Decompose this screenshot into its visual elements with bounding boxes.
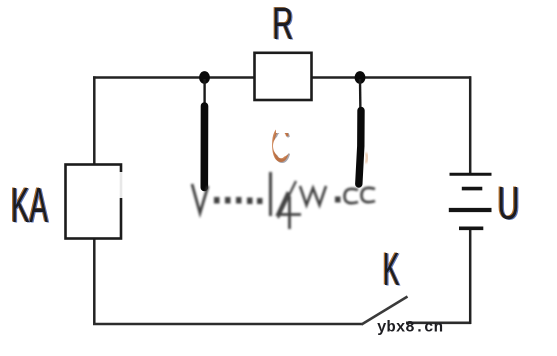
- left electrode bar: [201, 106, 209, 188]
- remnant dots row: [214, 197, 220, 204]
- remnant letter c: [345, 189, 359, 203]
- white smudge on KA box right border: [117, 172, 124, 198]
- erased capacitor label C (faint orange): [271, 119, 291, 174]
- junction node: right dot: [355, 71, 366, 84]
- remnant fraction slash: [278, 181, 296, 218]
- svg-text:R: R: [272, 0, 293, 49]
- wire: left electrode stub: [203, 79, 205, 107]
- battery U: bottom short plate (-): [459, 227, 483, 231]
- wire: left vertical, top corner down to KA coil: [93, 76, 96, 166]
- relay coil KA (box): [66, 165, 122, 239]
- wire: bottom horizontal, switch to bottom-right corner: [406, 321, 471, 324]
- white smudge over C top: [276, 124, 290, 133]
- switch K blade (open): [362, 297, 408, 325]
- right electrode bar: [359, 111, 361, 185]
- battery U: first short plate (-): [462, 187, 483, 191]
- remnant letter c: [362, 188, 376, 202]
- erased watermark: blurred "V .....1/4 W.cc" remnants: [192, 172, 375, 229]
- svg-text:KA: KA: [11, 178, 48, 233]
- remnant glyph V: [192, 184, 208, 213]
- label KA: [10, 178, 49, 234]
- battery U: top long plate (+): [450, 173, 492, 176]
- white smudge over C: [273, 135, 291, 157]
- resistor R (box): [255, 53, 312, 100]
- svg-text:ybx8.cn: ybx8.cn: [377, 319, 443, 337]
- label K (switch): [382, 243, 401, 296]
- wire: top horizontal bus: [93, 76, 471, 79]
- remnant digit 1 (tall stroke): [269, 172, 272, 216]
- svg-text:U: U: [498, 177, 520, 229]
- remnant digit 4 with descender: [278, 192, 302, 229]
- svg-text:K: K: [383, 243, 400, 295]
- label R: [271, 0, 294, 49]
- faint orange speck right of right electrode: [366, 153, 368, 163]
- remnant letter W: [300, 186, 326, 205]
- wire: right vertical, battery down to bottom-right corner: [469, 229, 472, 324]
- wire: right vertical, top corner down to battery: [469, 76, 472, 173]
- remnant mid dot: [335, 197, 341, 203]
- battery U: second long plate (+): [449, 208, 492, 212]
- wire: bottom horizontal, left corner to switch pivot: [93, 323, 363, 326]
- wire: left vertical, KA coil down to bottom wire: [93, 238, 96, 325]
- label U: [496, 177, 520, 230]
- wire: right electrode stub: [359, 79, 362, 111]
- junction node: left dot: [199, 71, 210, 84]
